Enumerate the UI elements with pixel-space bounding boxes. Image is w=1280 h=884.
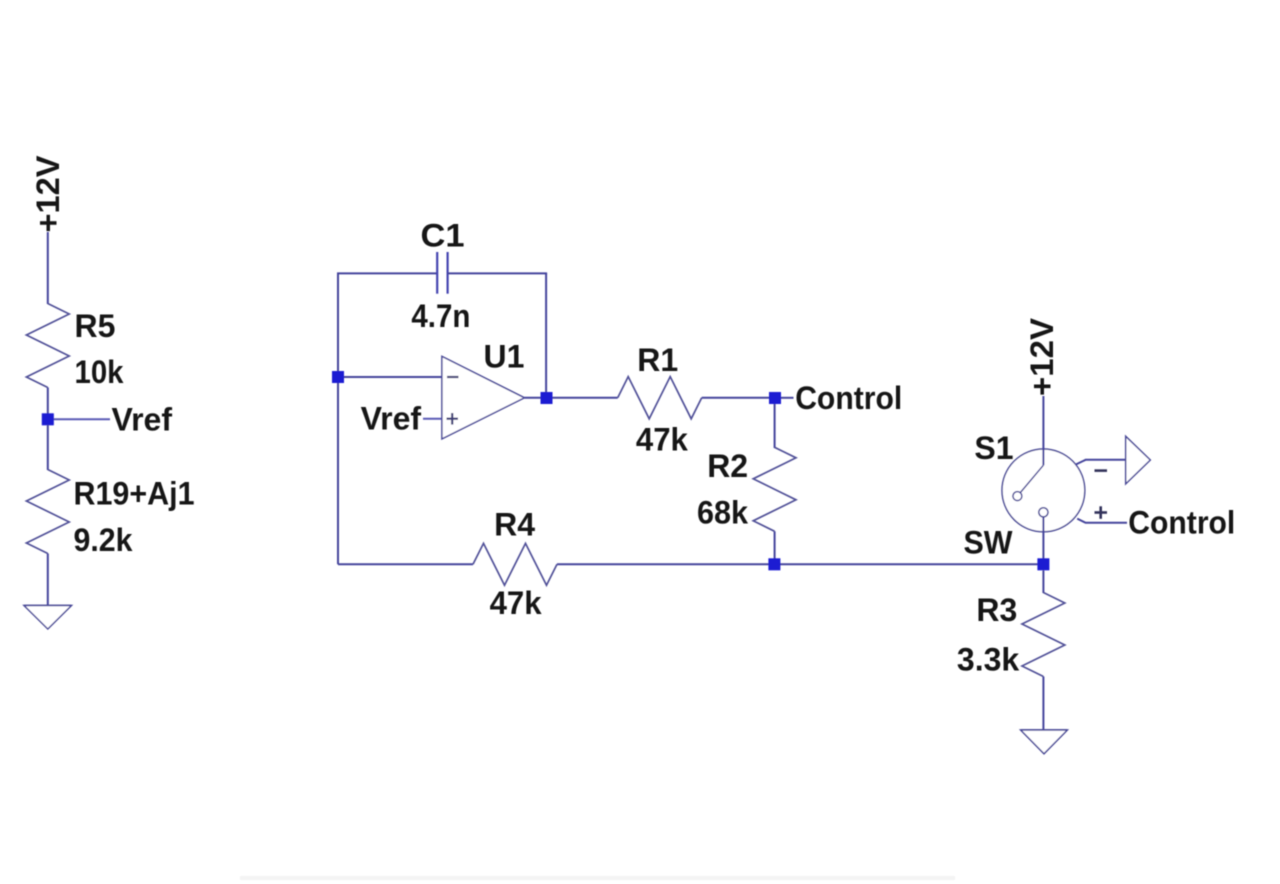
wire inverting input <box>344 376 442 378</box>
label R5 <box>75 308 116 344</box>
resistor R4 <box>473 543 557 585</box>
node Vref junction <box>42 413 54 425</box>
wire top to C1 left plate <box>337 272 437 274</box>
svg-text:+12V: +12V <box>1024 317 1060 396</box>
svg-text:68k: 68k <box>697 495 748 531</box>
svg-text:9.2k: 9.2k <box>74 522 133 558</box>
label R1 <box>637 342 678 378</box>
value 68k <box>697 495 748 531</box>
svg-text:Control: Control <box>1128 504 1235 540</box>
svg-text:4.7n: 4.7n <box>411 298 470 334</box>
net label Control (right) <box>1128 504 1235 540</box>
svg-text:R2: R2 <box>707 448 748 484</box>
resistor R19+Aj1 <box>26 470 69 554</box>
label R2 <box>707 448 748 484</box>
op-amp U1 <box>442 356 525 439</box>
wire stub inside switch <box>1042 448 1044 465</box>
value 3.3k <box>957 641 1019 677</box>
wire C1 right plate to corner <box>448 272 547 274</box>
wire S1 plus pin <box>1077 519 1127 523</box>
value 9.2k <box>74 522 133 558</box>
svg-text:R4: R4 <box>494 507 535 543</box>
wire feedback left vertical <box>337 273 339 564</box>
wire bottom right segment <box>557 563 1043 565</box>
plus sign S1 <box>1095 506 1108 519</box>
label U1 <box>484 339 525 375</box>
capacitor C1 <box>437 252 447 294</box>
ground (left) <box>24 606 72 630</box>
svg-text:Control: Control <box>795 380 902 416</box>
arrow symbol (minus output) <box>1126 436 1151 484</box>
svg-text:R19+Aj1: R19+Aj1 <box>74 476 195 512</box>
wire bottom left segment <box>338 563 473 565</box>
faint bottom artifact band <box>240 876 955 880</box>
wire S1 pin2 down <box>1042 517 1044 560</box>
minus sign S1 <box>1095 469 1108 472</box>
wire S1 minus pin <box>1076 460 1126 465</box>
node R2 bottom junction <box>768 558 780 570</box>
wire node to Control label <box>781 397 794 399</box>
label Vref (op-amp input) <box>361 401 422 437</box>
switch pin contact 1 <box>1013 492 1022 501</box>
power label +12V (right, rotated) <box>1024 317 1060 396</box>
net label Vref <box>112 401 173 437</box>
wire R19 to ground <box>47 554 49 606</box>
svg-text:+12V: +12V <box>30 155 66 233</box>
svg-text:R3: R3 <box>976 592 1017 628</box>
svg-text:SW: SW <box>964 524 1014 560</box>
svg-text:R1: R1 <box>637 342 678 378</box>
power label +12V (left, rotated) <box>30 155 66 233</box>
value 4.7n <box>411 298 470 334</box>
svg-text:3.3k: 3.3k <box>957 641 1019 677</box>
svg-text:Vref: Vref <box>361 401 422 437</box>
label R4 <box>494 507 535 543</box>
svg-text:47k: 47k <box>490 585 542 621</box>
node inverting input <box>332 371 344 383</box>
label C1 <box>421 218 465 254</box>
label S1 <box>974 430 1013 466</box>
svg-text:U1: U1 <box>484 339 525 375</box>
resistor R1 <box>618 377 702 419</box>
node op-amp output <box>541 392 553 404</box>
svg-text:S1: S1 <box>974 430 1013 466</box>
value 47k (R4) <box>490 585 542 621</box>
resistor R2 <box>753 447 796 531</box>
label R3 <box>976 592 1017 628</box>
svg-text:C1: C1 <box>421 218 465 254</box>
wire right vertical to output node <box>545 273 547 394</box>
resistor R5 <box>26 304 69 388</box>
wire node to R2 <box>774 404 776 448</box>
ground (right) <box>1021 730 1068 754</box>
label SW <box>964 524 1014 560</box>
wire op-amp output <box>525 397 618 399</box>
label R19+Aj1 <box>74 476 195 512</box>
svg-text:R5: R5 <box>75 308 116 344</box>
wire Vref stub to + input <box>423 418 442 420</box>
switch S1 body <box>1002 449 1085 532</box>
wire R2 to bottom node <box>774 531 776 560</box>
value 47k (R1) <box>636 422 688 458</box>
wire R3 to ground <box>1042 677 1044 731</box>
net label Control <box>795 380 902 416</box>
switch lever <box>1020 465 1043 492</box>
wire R5 to node <box>47 388 49 415</box>
resistor R3 <box>1022 593 1065 677</box>
wire +12V to switch <box>1042 396 1044 465</box>
svg-text:10k: 10k <box>75 354 124 390</box>
node Control junction <box>769 392 781 404</box>
wire +12V to R5 <box>47 232 49 304</box>
switch pin contact 2 <box>1039 508 1048 517</box>
svg-text:47k: 47k <box>636 422 688 458</box>
node SW junction <box>1037 558 1049 570</box>
svg-text:Vref: Vref <box>112 401 173 437</box>
wire node to Vref label <box>53 418 110 420</box>
wire node to R19 <box>47 425 49 470</box>
value 10k <box>75 354 124 390</box>
wire R1 to control node <box>702 397 769 399</box>
wire node to R3 <box>1042 570 1044 593</box>
